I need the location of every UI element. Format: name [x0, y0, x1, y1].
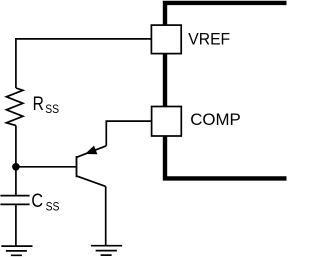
wire Q1 emitter to COMP pin	[106, 121, 151, 146]
IC block outline	[165, 3, 287, 179]
label R_SS subscript	[45, 104, 59, 117]
transistor Q1 base bar	[76, 156, 78, 177]
wire Q1 collector to ground	[105, 186, 107, 245]
wire capacitor to ground	[15, 204, 17, 246]
ground below Q1	[91, 246, 122, 255]
svg-text:R: R	[33, 92, 44, 114]
wire VREF pin to resistor top	[16, 39, 152, 88]
svg-text:VREF: VREF	[188, 29, 230, 48]
wire resistor to node	[15, 126, 17, 167]
label C_SS	[31, 190, 43, 212]
Q1 emitter	[77, 146, 107, 158]
node junction dot	[12, 163, 20, 171]
svg-text:SS: SS	[46, 201, 60, 214]
wire node to capacitor	[15, 167, 17, 196]
resistor R_SS	[6, 88, 23, 126]
capacitor C_SS plates	[0, 196, 29, 205]
label R_SS	[33, 92, 44, 114]
svg-text:SS: SS	[45, 104, 59, 117]
Q1 emitter arrow	[85, 146, 97, 155]
Q1 collector	[77, 176, 106, 187]
pin box VREF	[151, 25, 181, 53]
label C_SS subscript	[46, 201, 60, 214]
wire node to Q1 base	[16, 166, 77, 168]
svg-text:COMP: COMP	[190, 110, 241, 129]
pin box COMP	[152, 107, 182, 137]
ground below C_SS	[1, 246, 32, 255]
svg-text:C: C	[31, 190, 43, 212]
